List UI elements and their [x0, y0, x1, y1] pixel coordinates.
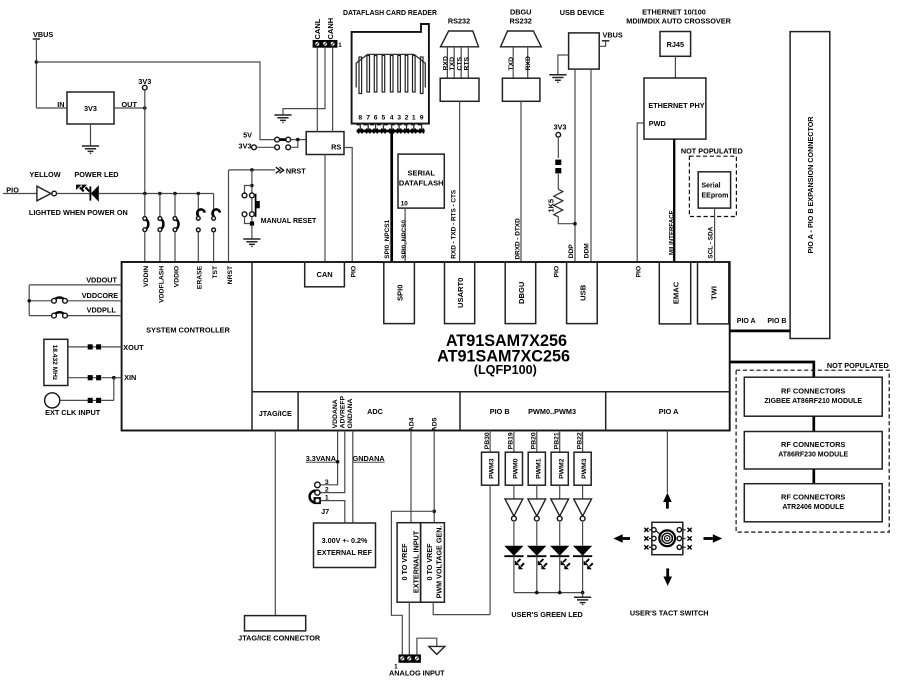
- svg-text:1K5: 1K5: [546, 199, 555, 213]
- svg-text:AD5: AD5: [432, 417, 439, 431]
- junction 3.3VANA: [336, 460, 340, 464]
- peripheral CAN: [305, 262, 345, 287]
- svg-text:1: 1: [412, 115, 416, 122]
- wire VDDIO to chip: [174, 232, 176, 262]
- wire LED D5 to bus: [582, 556, 584, 592]
- LED D5 green: [573, 546, 593, 570]
- svg-text:POWER LED: POWER LED: [74, 170, 118, 179]
- peripheral TWI: [698, 262, 729, 324]
- peripheral USART0: [445, 262, 475, 324]
- connector RF AT86RF230 module: [744, 432, 882, 470]
- block 0 TO VREF PWM VOLTAGE GEN: [421, 523, 445, 603]
- junction led bus 3: [581, 591, 585, 595]
- svg-text:5V: 5V: [243, 131, 252, 140]
- wire vdd bus: [28, 285, 30, 316]
- link usb pullup: [555, 160, 561, 174]
- svg-text:PWD: PWD: [649, 119, 666, 128]
- wire PIO to inverter: [3, 193, 37, 195]
- wire LED to jumpers: [99, 193, 214, 195]
- svg-text:ADVREFP: ADVREFP: [340, 395, 347, 428]
- wire RS to PIO pin: [344, 148, 352, 263]
- svg-text:DDP: DDP: [568, 244, 575, 259]
- driver DBGU U6: [502, 78, 540, 101]
- wire TWI bus: [714, 208, 716, 262]
- wire 3V3 jumper: [256, 146, 274, 148]
- svg-text:ETHERNET PHY: ETHERNET PHY: [648, 101, 704, 110]
- svg-text:DBGU: DBGU: [517, 281, 526, 304]
- wire PB19: [513, 431, 515, 453]
- svg-text:CANH: CANH: [326, 18, 335, 40]
- jumper 5V closed: [275, 137, 291, 142]
- memory SERIAL DATAFLASH U4: [398, 154, 444, 208]
- wire to LED D3: [536, 522, 538, 546]
- wire reset button column: [251, 170, 253, 224]
- peripheral DBGU: [505, 262, 536, 324]
- junction NRST: [250, 168, 254, 172]
- svg-text:VDDOUT: VDDOUT: [86, 276, 117, 285]
- wire VDDPLL right: [67, 315, 121, 317]
- svg-text:SCL - SDA: SCL - SDA: [708, 226, 715, 258]
- x marks tact switch: [644, 528, 691, 550]
- junction vdd bus: [27, 299, 31, 303]
- wire button left top: [245, 186, 252, 193]
- wire NRST: [229, 169, 276, 171]
- wire LED D3 to bus: [536, 556, 538, 592]
- svg-text:PIO: PIO: [636, 266, 643, 278]
- svg-text:EXT CLK INPUT: EXT CLK INPUT: [45, 408, 101, 417]
- svg-text:USB: USB: [578, 284, 587, 301]
- wire CANL to RS: [316, 48, 318, 132]
- wire VDDIO upper: [174, 194, 176, 217]
- svg-text:NOT POPULATED: NOT POPULATED: [827, 361, 889, 370]
- wire VDDIN to chip: [144, 232, 146, 262]
- wire to reset ground: [251, 226, 253, 239]
- svg-text:MDI/MDIX AUTO CROSSOVER: MDI/MDIX AUTO CROSSOVER: [626, 16, 731, 25]
- wire ERASE to chip: [197, 232, 199, 262]
- jumper VDDCORE: [52, 297, 68, 303]
- wire PIOA to tact: [666, 431, 668, 493]
- regulator 3V3 U1: [67, 92, 114, 124]
- svg-text:VDDPLL: VDDPLL: [87, 306, 117, 315]
- svg-text:RJ45: RJ45: [667, 40, 684, 49]
- inverter U2: [37, 186, 57, 201]
- wire usb shield: [558, 55, 569, 75]
- svg-text:JTAG/ICE CONNECTOR: JTAG/ICE CONNECTOR: [238, 633, 321, 642]
- bus card reader pins: [357, 130, 425, 133]
- wire VDDOUT: [29, 284, 121, 286]
- wire AD5: [433, 431, 435, 523]
- svg-text:RXD - TXD - RTS - CTS: RXD - TXD - RTS - CTS: [451, 189, 458, 259]
- wire XOUT: [68, 346, 122, 348]
- arrow down tact: [663, 568, 672, 586]
- svg-text:VDDANA: VDDANA: [332, 399, 339, 428]
- wire testpoint: [144, 90, 146, 108]
- svg-text:ATR2406 MODULE: ATR2406 MODULE: [782, 504, 844, 511]
- svg-text:SPI0: SPI0: [396, 285, 405, 301]
- wire DBGU bus: [520, 101, 522, 262]
- wire pullup to DDP: [558, 217, 575, 224]
- wire USART0 bus: [459, 101, 461, 262]
- pin TXD: [453, 47, 455, 78]
- wire CAN shield to ground: [283, 48, 325, 115]
- svg-text:3V3: 3V3: [554, 123, 567, 132]
- svg-text:1: 1: [325, 495, 329, 502]
- connector RJ45: [660, 32, 691, 57]
- svg-text:PIO B: PIO B: [490, 407, 510, 416]
- svg-text:DRXD - DTXD: DRXD - DTXD: [514, 218, 521, 260]
- pad reset: [250, 221, 254, 225]
- junction ERASE: [197, 192, 201, 196]
- jumper VDDIN: [143, 217, 148, 232]
- svg-text:18.432 MHz: 18.432 MHz: [51, 345, 58, 381]
- svg-text:TWI: TWI: [710, 286, 719, 300]
- ground USB: [549, 75, 566, 83]
- svg-text:RTS: RTS: [464, 56, 471, 70]
- svg-text:TXD: TXD: [449, 57, 456, 71]
- bus PIO to RF connectors: [730, 362, 814, 377]
- terminal block CAN: [313, 40, 338, 48]
- power rail bar: [602, 40, 609, 42]
- junction AD5: [432, 510, 436, 514]
- wire 3V3 rail down: [144, 108, 146, 194]
- svg-text:VBUS: VBUS: [33, 30, 53, 39]
- divider piob pioa: [605, 392, 607, 431]
- svg-text:NRST: NRST: [227, 265, 234, 284]
- svg-text:DATAFLASH: DATAFLASH: [399, 178, 444, 187]
- inverter D3: [528, 499, 546, 521]
- svg-text:4: 4: [390, 115, 394, 122]
- wire usb VBUS: [599, 41, 605, 47]
- testpoint 3V3 pullup: [556, 132, 561, 137]
- arrow up tact: [663, 493, 672, 509]
- wire RJ45 to PHY: [674, 56, 676, 78]
- svg-text:RS: RS: [331, 143, 341, 152]
- wire analog input: [391, 511, 434, 654]
- phy ETHERNET PHY U7: [644, 78, 706, 139]
- bus SPI to chip: [390, 131, 393, 262]
- svg-text:ERASE: ERASE: [197, 265, 204, 289]
- svg-text:0 TO VREF: 0 TO VREF: [425, 543, 434, 581]
- svg-text:DDM: DDM: [584, 243, 591, 259]
- svg-text:PWM0: PWM0: [513, 458, 520, 479]
- crystal Y1 18.432 MHz: [44, 339, 68, 385]
- wire pullup top: [557, 137, 559, 158]
- svg-text:RF CONNECTORS: RF CONNECTORS: [781, 492, 845, 501]
- svg-text:PWM2: PWM2: [558, 458, 565, 479]
- jumper 3V3 open: [275, 145, 291, 150]
- wire VDDCORE left: [29, 300, 51, 302]
- switch tact SW2: [652, 522, 683, 554]
- wire VBUS to IN: [36, 107, 67, 109]
- block 0 TO VREF EXTERNAL INPUT: [397, 523, 421, 603]
- svg-text:1: 1: [338, 42, 342, 49]
- svg-text:USB DEVICE: USB DEVICE: [560, 8, 605, 17]
- svg-text:XIN: XIN: [124, 373, 136, 382]
- peripheral USB: [567, 262, 598, 324]
- resistor 1K5: [554, 189, 563, 217]
- pin CTS: [460, 47, 462, 78]
- jumper TST: [212, 209, 220, 231]
- svg-text:MII INTERFACE: MII INTERFACE: [668, 210, 675, 255]
- svg-text:GNDANA: GNDANA: [347, 398, 354, 428]
- svg-text:MANUAL RESET: MANUAL RESET: [261, 218, 317, 225]
- svg-text:USER'S GREEN LED: USER'S GREEN LED: [511, 610, 582, 619]
- junction VBUS rail: [35, 60, 39, 64]
- svg-text:GNDANA: GNDANA: [353, 454, 386, 463]
- junction 5V-3V3: [296, 138, 300, 142]
- transceiver RS U3: [306, 132, 344, 155]
- svg-text:8: 8: [358, 115, 362, 122]
- wire ext clk up: [113, 378, 115, 401]
- wire PB30 to pwm gen: [489, 485, 491, 614]
- block PWM0 PB19: [505, 452, 522, 485]
- block PWM3 PB30: [482, 452, 499, 485]
- jumper VDDPLL: [52, 312, 68, 318]
- svg-text:PIO A: PIO A: [737, 318, 756, 325]
- wire VDDIN upper: [144, 194, 146, 217]
- wire PB22: [582, 431, 584, 453]
- svg-text:3: 3: [397, 115, 401, 122]
- peripheral EMAC: [659, 262, 690, 324]
- wire J7-1 to ref: [320, 501, 345, 523]
- svg-text:EXTERNAL REF: EXTERNAL REF: [317, 548, 373, 557]
- divider jtag adc: [297, 392, 299, 431]
- svg-text:CANL: CANL: [313, 18, 322, 39]
- svg-text:AT86RF230 MODULE: AT86RF230 MODULE: [778, 452, 848, 459]
- jumper VDDFLASH: [158, 217, 163, 232]
- svg-text:RXD: RXD: [525, 56, 532, 70]
- LED D4 green: [550, 546, 570, 570]
- block PWM2 PB21: [551, 452, 568, 485]
- LED D1 power: [76, 185, 99, 202]
- svg-text:VDDCORE: VDDCORE: [82, 291, 119, 300]
- svg-text:3.3VANA: 3.3VANA: [306, 454, 337, 463]
- wire PB21: [559, 431, 561, 453]
- svg-text:2: 2: [325, 486, 329, 493]
- wire inverter to LED: [57, 193, 91, 195]
- svg-text:PIO: PIO: [554, 266, 561, 278]
- svg-text:PWM3: PWM3: [489, 458, 496, 479]
- svg-text:YELLOW: YELLOW: [29, 170, 60, 179]
- wire to inverter D3: [536, 485, 538, 499]
- wire ext clk: [60, 399, 114, 401]
- svg-text:3: 3: [325, 479, 329, 486]
- wire 3V3 to junction: [291, 141, 298, 147]
- mcu AT91SAM7X256 U9: [122, 262, 730, 431]
- svg-text:PWM1: PWM1: [535, 458, 542, 479]
- svg-text:3V3: 3V3: [84, 104, 97, 113]
- card reader comb contacts: [356, 54, 425, 93]
- wire CANH to RS: [332, 48, 334, 132]
- junction XIN: [112, 376, 116, 380]
- svg-text:TXD: TXD: [508, 57, 515, 71]
- LED D3 green: [527, 546, 547, 570]
- ground reset: [243, 239, 260, 247]
- svg-text:TST: TST: [212, 265, 219, 279]
- divider system controller: [251, 262, 253, 431]
- block PWM3 PB22: [574, 452, 591, 485]
- svg-text:VDDIO: VDDIO: [174, 266, 181, 288]
- wire LED ground bus: [514, 592, 583, 594]
- svg-text:ETHERNET 10/100: ETHERNET 10/100: [642, 8, 706, 17]
- wire NPCS0: [404, 208, 406, 262]
- wire GNDANA to ref: [352, 431, 354, 524]
- connector PIO A PIO B expansion: [790, 32, 830, 339]
- testpoint 3V3: [143, 85, 148, 90]
- svg-text:CTS: CTS: [457, 56, 464, 70]
- pin TXD: [512, 47, 514, 78]
- svg-text:EMAC: EMAC: [671, 281, 680, 304]
- wire pwm gen to PB30: [433, 602, 490, 614]
- wire TST to chip: [213, 232, 215, 262]
- svg-text:XOUT: XOUT: [123, 343, 144, 352]
- LED D2 green: [504, 546, 524, 570]
- wire VDDCORE right: [67, 300, 121, 302]
- svg-text:SPI0_NPCS1: SPI0_NPCS1: [384, 220, 391, 259]
- svg-text:VDDIN: VDDIN: [143, 266, 150, 287]
- svg-text:USART0: USART0: [456, 278, 465, 308]
- svg-text:(LQFP100): (LQFP100): [474, 363, 537, 377]
- svg-text:RS232: RS232: [448, 17, 470, 26]
- svg-text:VBUS: VBUS: [603, 31, 623, 40]
- wire JTAG down: [274, 431, 276, 616]
- wire VDDANA to J7-3: [320, 431, 338, 485]
- svg-text:PIO A - PIO B EXPANSION CONNEC: PIO A - PIO B EXPANSION CONNECTOR: [806, 116, 815, 254]
- svg-text:J7: J7: [321, 507, 329, 516]
- svg-text:RF CONNECTORS: RF CONNECTORS: [781, 440, 845, 449]
- terminal block ANALOG INPUT: [399, 654, 421, 662]
- wire to led ground: [582, 593, 584, 597]
- wire VBUS down: [35, 39, 37, 108]
- wire OUT: [114, 107, 145, 109]
- inverter D2: [505, 499, 523, 521]
- svg-text:Serial: Serial: [702, 182, 721, 189]
- wire PB20: [536, 431, 538, 453]
- svg-text:DBGU: DBGU: [510, 8, 532, 17]
- divider adc piob: [459, 392, 461, 431]
- arrow left tact: [613, 534, 630, 543]
- wire DDP: [574, 69, 576, 262]
- inverter D5: [574, 499, 592, 521]
- wire to LED D5: [582, 522, 584, 546]
- junction VDDIN: [143, 192, 147, 196]
- wire to inverter D2: [513, 485, 515, 499]
- junction led bus 2: [558, 591, 562, 595]
- block PWM1 PB20: [528, 452, 545, 485]
- wire VBUS rail to 5V jumper: [36, 62, 274, 140]
- pin RXD: [446, 47, 448, 78]
- svg-text:NOT POPULATED: NOT POPULATED: [681, 147, 743, 156]
- wire LED D2 to bus: [513, 556, 515, 592]
- wire to inverter D5: [582, 485, 584, 499]
- wire DDM: [590, 69, 592, 262]
- wire LED D4 to bus: [559, 556, 561, 592]
- connector EXT CLK input: [45, 393, 60, 408]
- svg-text:PWM VOLTAGE GEN.: PWM VOLTAGE GEN.: [435, 526, 444, 599]
- memory Serial EEprom U8: [698, 172, 730, 208]
- junction button: [250, 184, 254, 188]
- wire ADVREFP to J7-2: [320, 431, 345, 493]
- ground CAN: [274, 115, 291, 123]
- connector RS232 shell: [441, 31, 479, 47]
- svg-text:PIO A: PIO A: [659, 407, 679, 416]
- pin RTS: [467, 47, 469, 78]
- connector JTAG/ICE: [245, 616, 306, 631]
- svg-text:10: 10: [401, 201, 409, 208]
- chevron NRST: [276, 167, 284, 173]
- wire to LED D2: [513, 522, 515, 546]
- junction DDP pullup: [573, 222, 577, 226]
- link EXT CLK: [88, 398, 101, 403]
- bus MII: [673, 139, 675, 262]
- jumper J7: [310, 482, 321, 504]
- svg-text:EEprom: EEprom: [702, 192, 729, 199]
- svg-text:6: 6: [374, 115, 378, 122]
- svg-text:LIGHTED WHEN POWER ON: LIGHTED WHEN POWER ON: [29, 208, 128, 217]
- svg-text:9: 9: [420, 115, 424, 122]
- svg-text:VDDFLASH: VDDFLASH: [158, 266, 165, 303]
- svg-text:NRST: NRST: [286, 166, 306, 175]
- svg-text:5: 5: [382, 115, 386, 122]
- ground analog triangle: [429, 646, 445, 654]
- wire ERASE upper: [197, 194, 199, 217]
- inverter D4: [551, 499, 569, 521]
- link XOUT: [88, 344, 101, 349]
- wire RS to CAN peripheral: [324, 155, 326, 263]
- wire 5V to RS: [291, 139, 307, 141]
- svg-text:CAN: CAN: [316, 270, 332, 279]
- testpoint 3V3 jumper: [252, 145, 257, 150]
- svg-text:3V3: 3V3: [138, 77, 151, 86]
- svg-text:RS232: RS232: [510, 17, 532, 26]
- svg-text:ADC: ADC: [367, 407, 384, 416]
- svg-text:2: 2: [405, 115, 409, 122]
- svg-text:PIO: PIO: [350, 266, 357, 278]
- power rail bar: [33, 38, 40, 40]
- wire button left bottom: [245, 217, 250, 224]
- region not populated rf: [736, 370, 889, 532]
- ground LEDs: [574, 597, 591, 605]
- wire regulator gnd: [90, 124, 92, 146]
- wire VDDPLL left: [29, 315, 51, 317]
- jumper VDDIO: [173, 217, 178, 232]
- junction 3V3 out: [143, 106, 147, 110]
- wire to inverter D4: [559, 485, 561, 499]
- divider bottom band: [252, 391, 730, 393]
- peripheral SPI0: [384, 262, 415, 324]
- junction led bus 1: [535, 591, 539, 595]
- svg-text:3.00V +- 0.2%: 3.00V +- 0.2%: [322, 536, 368, 545]
- wire VDDFLASH upper: [159, 194, 161, 217]
- svg-text:EXTERNAL INPUT: EXTERNAL INPUT: [411, 530, 420, 593]
- jumper ERASE: [196, 209, 204, 231]
- junction VDDIO: [173, 192, 177, 196]
- svg-text:3V3: 3V3: [239, 142, 252, 151]
- wire PB30: [489, 431, 491, 453]
- svg-text:PWM0..PWM3: PWM0..PWM3: [528, 407, 576, 416]
- svg-text:SYSTEM CONTROLLER: SYSTEM CONTROLLER: [146, 326, 230, 335]
- wire ext input to terminal: [408, 602, 410, 654]
- svg-text:AD4: AD4: [408, 417, 415, 431]
- wire analog ground: [417, 638, 437, 654]
- driver RS232 U5: [440, 78, 479, 101]
- connector RF ATR2406 module: [744, 484, 882, 522]
- labels card reader pin numbers: [358, 115, 423, 122]
- pushbutton SW manual reset: [242, 193, 260, 217]
- svg-text:DATAFLASH CARD READER: DATAFLASH CARD READER: [343, 10, 437, 17]
- tact switch pins: [649, 528, 686, 550]
- x marks card reader pins: [358, 129, 424, 134]
